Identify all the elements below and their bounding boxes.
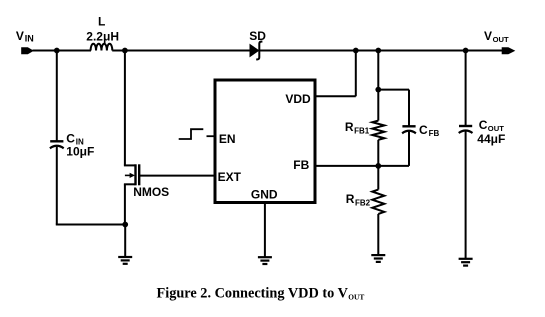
svg-text:R: R xyxy=(345,120,354,134)
svg-text:V: V xyxy=(484,29,492,43)
svg-text:10μF: 10μF xyxy=(66,145,94,159)
svg-text:C: C xyxy=(66,131,75,145)
svg-text:FB2: FB2 xyxy=(355,198,371,207)
svg-text:NMOS: NMOS xyxy=(133,185,169,199)
svg-text:R: R xyxy=(346,192,355,206)
svg-text:L: L xyxy=(98,15,105,29)
svg-text:OUT: OUT xyxy=(493,35,509,44)
svg-text:IN: IN xyxy=(25,34,34,44)
svg-text:EN: EN xyxy=(219,132,236,146)
svg-text:C: C xyxy=(419,123,428,137)
svg-text:Figure 2. Connecting VDD to V: Figure 2. Connecting VDD to V xyxy=(157,286,349,302)
svg-text:FB: FB xyxy=(293,158,309,172)
svg-text:V: V xyxy=(16,29,24,43)
svg-text:2.2μH: 2.2μH xyxy=(86,29,119,43)
svg-text:FB: FB xyxy=(429,129,440,138)
svg-text:OUT: OUT xyxy=(348,293,364,302)
svg-text:SD: SD xyxy=(249,29,266,43)
svg-text:EXT: EXT xyxy=(218,170,242,184)
svg-text:GND: GND xyxy=(251,188,278,202)
svg-text:VDD: VDD xyxy=(285,92,311,106)
svg-text:44μF: 44μF xyxy=(477,132,505,146)
svg-text:FB1: FB1 xyxy=(354,127,370,136)
svg-text:C: C xyxy=(479,118,488,132)
